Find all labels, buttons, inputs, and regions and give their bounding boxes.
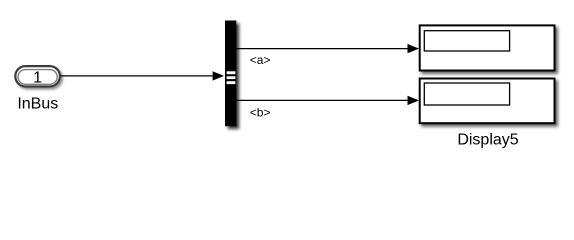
svg-text:<b>: <b> bbox=[250, 106, 271, 120]
inport In1 inner stadium bbox=[18, 70, 57, 85]
svg-text:Display5: Display5 bbox=[457, 132, 518, 149]
wire from InBus to bus selector bbox=[61, 75, 219, 77]
svg-text:<a>: <a> bbox=[250, 53, 271, 67]
arrowhead into Display5 bbox=[408, 96, 420, 105]
svg-text:InBus: InBus bbox=[17, 96, 58, 113]
inport In1 outer stadium bbox=[15, 66, 60, 86]
arrowhead into Display top bbox=[408, 44, 420, 53]
arrowhead into bus selector bbox=[213, 71, 224, 80]
bus selector body bbox=[225, 21, 236, 127]
Display top value field bbox=[424, 31, 509, 51]
wire a from bus selector to Display top bbox=[236, 48, 411, 50]
Display block top body bbox=[420, 25, 555, 70]
Display5 value field bbox=[424, 83, 509, 105]
wire b from bus selector to Display5 bbox=[236, 99, 411, 101]
bus selector stripes bbox=[227, 71, 236, 74]
Display block bottom body (Display5) bbox=[420, 79, 555, 124]
svg-text:1: 1 bbox=[33, 70, 42, 87]
